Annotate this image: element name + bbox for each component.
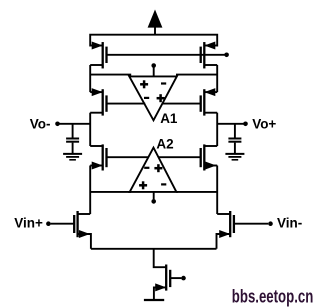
A1 input polarity labels (second row) [144, 94, 165, 102]
wire A1 input tap left (node X) [90, 74, 131, 76]
wire gate bias line of M1/M2 [107, 54, 225, 56]
wire tail rail (input pair common source) [91, 248, 217, 250]
op-amp A1 (gain booster, points down) [129, 68, 177, 121]
wire A2 input tap right [176, 191, 217, 193]
bias terminal dot (M11 gate) [181, 276, 186, 281]
label Vin+ [14, 215, 43, 230]
wire A2 output to M8 gate [158, 156, 201, 158]
wire Vo+ node [217, 123, 244, 125]
A2 input polarity labels (lower row) [139, 181, 166, 189]
svg-text:A2: A2 [156, 137, 173, 152]
svg-text:Vin+: Vin+ [14, 215, 43, 230]
capacitor CL (Vo+ load) [228, 124, 241, 154]
ground (tail source) [144, 299, 164, 301]
wire A2 input tap left [90, 191, 131, 193]
A1 input polarity labels (top row) [140, 80, 166, 88]
wire M11 gate bias stub [170, 277, 181, 279]
ground (Vo- capacitor) [63, 154, 82, 160]
terminal dot Vo- [55, 122, 60, 127]
terminal dot Vin+ [46, 221, 51, 226]
wire M2 drain to M6 source [216, 65, 218, 92]
wire A1 output to M5 gate [107, 103, 146, 105]
wire Vin+ gate [51, 223, 75, 225]
A1 common-mode terminal dot [151, 63, 156, 68]
svg-text:A1: A1 [160, 111, 178, 126]
svg-text:bbs.eetop.cn: bbs.eetop.cn [232, 286, 313, 306]
terminal dot Vin- [268, 221, 273, 226]
PMOS M2 top-right current mirror [201, 42, 218, 69]
PMOS cascode M5 (left) [90, 88, 106, 116]
VDD supply arrow [148, 10, 163, 35]
wire A1 output to M6 gate [162, 103, 200, 105]
wire tail rail to M11 drain [154, 249, 167, 267]
label Vo- [30, 116, 51, 131]
wire A1 input tap right (node Y) [176, 74, 217, 76]
A2 common-mode terminal dot [151, 199, 156, 204]
wire M5 drain to M7 drain (left, through Vo- node) [89, 113, 91, 146]
label Vin- [277, 215, 302, 230]
PMOS cascode M6 (right) [201, 88, 218, 116]
NMOS cascode M8 (right) [201, 144, 218, 170]
wire M1 drain to M5 source [89, 65, 91, 92]
label A2 [156, 137, 173, 152]
svg-text:Vo-: Vo- [30, 116, 51, 131]
bias terminal dot (M1/M2 gates) [224, 53, 229, 58]
NMOS input M9 (Vin+, left) [74, 211, 91, 249]
svg-text:Vo+: Vo+ [252, 116, 276, 131]
wire M7 source to M9 drain [89, 166, 91, 215]
wire Vo- node [59, 123, 90, 125]
NMOS cascode M7 (left) [90, 144, 106, 170]
wire A2 output to M7 gate [107, 156, 150, 158]
NMOS input M10 (Vin-, right) [217, 211, 234, 249]
label A1 [160, 111, 178, 126]
ground (Vo+ capacitor) [225, 154, 244, 160]
watermark bbs.eetop.cn [232, 286, 313, 306]
capacitor CL (Vo- load) [66, 124, 79, 154]
PMOS M1 top-left current mirror [90, 42, 106, 69]
terminal dot Vo+ [243, 122, 248, 127]
svg-text:Vin-: Vin- [277, 215, 302, 230]
wire Vin- gate [234, 223, 268, 225]
A2 input polarity labels (upper row) [144, 164, 162, 172]
op-amp A2 (gain booster, points up) [130, 148, 177, 200]
NMOS tail current source M11 [154, 265, 170, 301]
wire M6 drain to M8 drain (right, through Vo+ node) [216, 113, 218, 146]
label Vo+ [252, 116, 276, 131]
wire M8 source to M10 drain [216, 166, 218, 215]
VDD rail wire [90, 35, 217, 47]
